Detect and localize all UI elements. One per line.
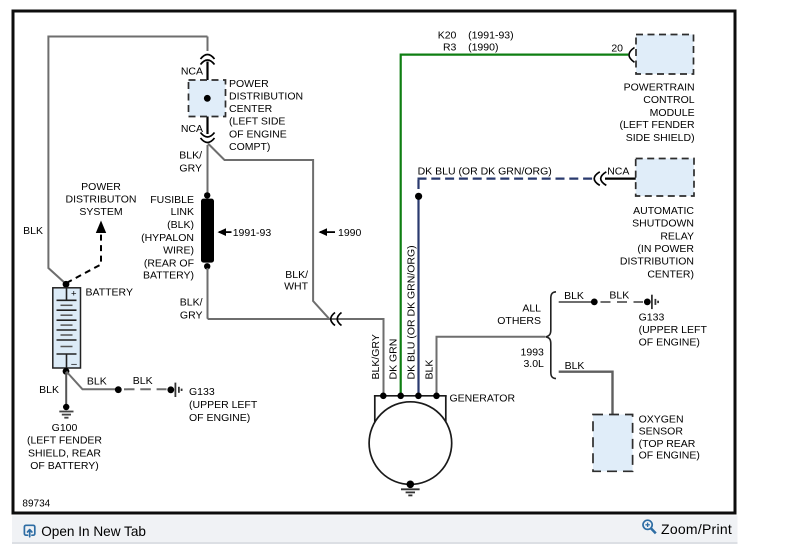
toolbar icon: open in new tab bbox=[24, 525, 34, 536]
svg-text:SIDE SHIELD): SIDE SHIELD) bbox=[626, 132, 695, 144]
label: BLK on solid splice segment left bbox=[87, 375, 107, 387]
label: BLK/GRY rotated at generator bbox=[370, 334, 382, 379]
svg-text:SENSOR: SENSOR bbox=[639, 426, 684, 438]
svg-text:1993: 1993 bbox=[521, 347, 545, 359]
label: DK BLU wire name bbox=[418, 166, 552, 178]
label: BLK/GRY lower bbox=[180, 297, 203, 322]
label: DK BLU rotated at generator bbox=[405, 245, 417, 379]
svg-text:BLK: BLK bbox=[87, 375, 107, 387]
svg-text:3.0L: 3.0L bbox=[523, 358, 544, 370]
svg-text:R3: R3 bbox=[443, 42, 457, 54]
svg-text:WHT: WHT bbox=[284, 280, 308, 292]
oxygen sensor box bbox=[593, 415, 633, 472]
label: G133 right block bbox=[639, 311, 708, 348]
svg-text:RELAY: RELAY bbox=[660, 230, 694, 242]
toolbar label: Zoom/Print bbox=[661, 521, 732, 537]
svg-text:(LEFT FENDER: (LEFT FENDER bbox=[620, 119, 695, 131]
label: automatic shutdown relay block bbox=[620, 205, 694, 281]
svg-text:(1991-93): (1991-93) bbox=[468, 30, 514, 42]
wire: BLK/GRY from PDC to fusible link bbox=[207, 145, 209, 194]
svg-text:(BLK): (BLK) bbox=[167, 219, 194, 231]
connector break on BLK/GRY horizontal bbox=[331, 313, 342, 326]
toolbar background bbox=[12, 516, 738, 545]
svg-text:OF ENGINE): OF ENGINE) bbox=[639, 450, 700, 462]
svg-text:(LEFT SIDE: (LEFT SIDE bbox=[229, 116, 285, 128]
label: BLK oxygen branch bbox=[565, 360, 585, 372]
wire: DK BLU vertical to generator bbox=[417, 180, 419, 395]
svg-text:(TOP REAR: (TOP REAR bbox=[639, 438, 696, 450]
wire: black stub into ASD relay bbox=[605, 177, 636, 179]
svg-text:ALL: ALL bbox=[522, 303, 541, 315]
wire: black through PDC bbox=[206, 62, 208, 135]
svg-text:SHUTDOWN: SHUTDOWN bbox=[632, 218, 694, 230]
powertrain control module box bbox=[636, 35, 694, 75]
svg-text:POWER: POWER bbox=[229, 78, 269, 90]
svg-text:DK BLU (OR DK GRN/ORG): DK BLU (OR DK GRN/ORG) bbox=[418, 166, 552, 178]
wire: gray stub above PDC connector bbox=[207, 37, 209, 52]
svg-text:COMPT): COMPT) bbox=[229, 141, 270, 153]
connector break below PDC bbox=[201, 133, 215, 143]
label: 1993 3.0L bbox=[521, 347, 545, 371]
dashed wire to G133 left bbox=[124, 388, 167, 390]
wire: dashed DK BLU horizontal to ASD relay bbox=[418, 178, 594, 180]
svg-text:BLK: BLK bbox=[565, 360, 585, 372]
label: BLK at G100 bbox=[39, 384, 59, 396]
dashed wire to G133 right bbox=[601, 301, 644, 303]
node: DK BLU splice bbox=[415, 193, 422, 200]
label: BLK/GRY upper bbox=[179, 150, 202, 175]
svg-text:(HYPALON: (HYPALON bbox=[141, 232, 194, 244]
svg-text:(IN POWER: (IN POWER bbox=[637, 243, 694, 255]
svg-text:AUTOMATIC: AUTOMATIC bbox=[633, 205, 694, 217]
wire: left vertical battery feed BLK bbox=[48, 36, 66, 285]
wire: BLK from generator to brace bbox=[437, 337, 546, 395]
svg-text:(REAR OF: (REAR OF bbox=[144, 257, 194, 269]
label: BLK right solid segment bbox=[564, 290, 584, 302]
label: DK GRN rotated at generator bbox=[388, 339, 400, 380]
svg-text:89734: 89734 bbox=[22, 499, 50, 510]
svg-text:OF BATTERY): OF BATTERY) bbox=[30, 460, 98, 472]
svg-text:BATTERY): BATTERY) bbox=[143, 270, 194, 282]
label: 1990 bbox=[338, 227, 362, 239]
svg-text:G133: G133 bbox=[189, 386, 215, 398]
svg-text:1991-93: 1991-93 bbox=[233, 227, 272, 239]
generator case ground bbox=[401, 481, 420, 496]
svg-text:DK GRN: DK GRN bbox=[388, 339, 400, 380]
label: K20 R3 circuit names bbox=[438, 30, 514, 54]
power distribution center box bbox=[189, 80, 226, 117]
ground G100 bbox=[59, 404, 73, 418]
generator terminal nodes bbox=[380, 393, 440, 400]
svg-text:G100: G100 bbox=[52, 422, 78, 434]
node: battery negative terminal bbox=[63, 368, 70, 375]
svg-text:+: + bbox=[71, 289, 77, 300]
svg-text:CENTER): CENTER) bbox=[647, 269, 694, 281]
node: splice on left BLK run bbox=[115, 386, 122, 393]
svg-text:POWER: POWER bbox=[81, 181, 121, 193]
svg-text:BLK: BLK bbox=[609, 290, 629, 302]
arrow: 1990 callout bbox=[319, 228, 336, 236]
label: ALL OTHERS bbox=[497, 303, 541, 327]
label: GENERATOR bbox=[450, 393, 516, 405]
svg-text:LINK: LINK bbox=[171, 206, 194, 218]
label: NCA upper bbox=[181, 66, 203, 78]
label: NCA lower bbox=[181, 123, 203, 135]
svg-text:BLK: BLK bbox=[424, 360, 436, 380]
label: oxygen sensor block bbox=[639, 414, 700, 462]
svg-text:OF ENGINE: OF ENGINE bbox=[229, 128, 287, 140]
svg-text:BATTERY: BATTERY bbox=[86, 286, 133, 298]
svg-text:BLK/: BLK/ bbox=[179, 150, 202, 162]
svg-text:DK BLU (OR DK GRN/ORG): DK BLU (OR DK GRN/ORG) bbox=[405, 245, 417, 379]
svg-text:OF ENGINE): OF ENGINE) bbox=[639, 337, 700, 349]
svg-text:WIRE): WIRE) bbox=[163, 245, 194, 257]
svg-text:NCA: NCA bbox=[607, 166, 629, 178]
label: power distribution system bbox=[66, 181, 137, 218]
svg-text:Open In New Tab: Open In New Tab bbox=[41, 524, 146, 539]
automatic shutdown relay box bbox=[636, 159, 694, 197]
svg-text:BLK: BLK bbox=[23, 225, 43, 237]
generator symbol bbox=[369, 396, 452, 485]
svg-text:NCA: NCA bbox=[181, 123, 203, 135]
svg-text:G133: G133 bbox=[639, 311, 665, 323]
svg-text:BLK: BLK bbox=[133, 375, 153, 387]
svg-text:SYSTEM: SYSTEM bbox=[79, 206, 122, 218]
label: BLK on dashed segment left bbox=[133, 375, 153, 387]
toolbar label: Open In New Tab bbox=[41, 524, 146, 539]
node: battery positive junction bbox=[63, 281, 70, 288]
wire: battery negative to ground G100 bbox=[65, 372, 67, 405]
battery bbox=[53, 288, 81, 370]
svg-text:DISTRIBUTON: DISTRIBUTON bbox=[66, 194, 137, 206]
svg-text:FUSIBLE: FUSIBLE bbox=[150, 194, 194, 206]
svg-text:–: – bbox=[71, 359, 77, 370]
svg-text:(UPPER LEFT: (UPPER LEFT bbox=[639, 324, 708, 336]
toolbar icon: magnifier bbox=[643, 520, 656, 533]
label: battery bbox=[86, 286, 133, 298]
svg-text:MODULE: MODULE bbox=[650, 107, 695, 119]
wire: ALL OTHERS branch solid BLK bbox=[559, 301, 592, 303]
svg-text:20: 20 bbox=[611, 43, 623, 55]
svg-text:(LEFT FENDER: (LEFT FENDER bbox=[27, 435, 102, 447]
fusible link body bbox=[201, 199, 214, 263]
svg-text:GRY: GRY bbox=[180, 310, 203, 322]
node: PDC internal junction bbox=[204, 95, 211, 102]
label: G100 block bbox=[27, 422, 102, 472]
wire: top horizontal feed to PDC bbox=[48, 36, 207, 38]
connector at ASD relay NCA bbox=[594, 172, 606, 186]
svg-text:DISTRIBUTION: DISTRIBUTION bbox=[229, 91, 303, 103]
svg-text:Zoom/Print: Zoom/Print bbox=[661, 521, 732, 537]
svg-text:(UPPER LEFT: (UPPER LEFT bbox=[189, 399, 258, 411]
label: powertrain control module block bbox=[620, 81, 695, 144]
dashed arrow: power distribution system reference bbox=[67, 221, 107, 284]
connector break above PDC bbox=[201, 55, 215, 65]
label: 1991-93 bbox=[233, 227, 272, 239]
wire: 1990 branch BLK/WHT bbox=[208, 144, 329, 319]
label: fusible link block bbox=[141, 194, 194, 282]
label: power distribution center block bbox=[229, 78, 303, 153]
wire: green K20/R3 circuit bbox=[401, 55, 629, 395]
connector at PCM pin 20 bbox=[629, 48, 635, 63]
label: G133 left block bbox=[189, 386, 258, 424]
svg-text:BLK: BLK bbox=[39, 384, 59, 396]
svg-text:DISTRIBUTION: DISTRIBUTION bbox=[620, 256, 694, 268]
svg-text:BLK/GRY: BLK/GRY bbox=[370, 334, 382, 379]
node: fusible link bottom terminal bbox=[204, 263, 210, 269]
label: pin 20 bbox=[611, 43, 623, 55]
svg-text:1990: 1990 bbox=[338, 227, 362, 239]
svg-text:POWERTRAIN: POWERTRAIN bbox=[624, 81, 695, 93]
svg-text:GRY: GRY bbox=[179, 162, 202, 174]
wire: 1993 3.0L branch to oxygen sensor bbox=[559, 372, 613, 415]
label: BLK left feed bbox=[23, 225, 43, 237]
svg-text:CONTROL: CONTROL bbox=[643, 94, 694, 106]
svg-text:SHIELD, REAR: SHIELD, REAR bbox=[28, 447, 101, 459]
node: splice on right BLK run bbox=[591, 299, 598, 306]
ground G133 left bbox=[167, 383, 181, 397]
svg-text:GENERATOR: GENERATOR bbox=[450, 393, 516, 405]
label: BLK/WHT bbox=[284, 269, 308, 292]
svg-text:BLK/: BLK/ bbox=[180, 297, 203, 309]
svg-text:NCA: NCA bbox=[181, 66, 203, 78]
arrow: 1991-93 callout bbox=[218, 228, 232, 236]
label: BLK rotated at generator bbox=[424, 360, 436, 380]
svg-text:K20: K20 bbox=[438, 30, 457, 42]
svg-text:OTHERS: OTHERS bbox=[497, 315, 541, 327]
svg-text:(1990): (1990) bbox=[468, 42, 498, 54]
svg-text:BLK: BLK bbox=[564, 290, 584, 302]
wire: battery negative to splice BLK bbox=[66, 372, 117, 390]
label: BLK right dashed segment bbox=[609, 290, 629, 302]
svg-text:OXYGEN: OXYGEN bbox=[639, 414, 684, 426]
label: NCA at ASD bbox=[607, 166, 629, 178]
label: diagram number 89734 bbox=[22, 499, 50, 510]
svg-text:OF ENGINE): OF ENGINE) bbox=[189, 412, 250, 424]
wire: BLK/GRY lower run to generator bbox=[208, 268, 384, 395]
ground G133 right bbox=[644, 295, 658, 309]
node: fusible link top terminal bbox=[204, 192, 210, 198]
brace: ALL OTHERS / 1993 3.0L split bbox=[546, 292, 556, 379]
svg-text:CENTER: CENTER bbox=[229, 103, 273, 115]
